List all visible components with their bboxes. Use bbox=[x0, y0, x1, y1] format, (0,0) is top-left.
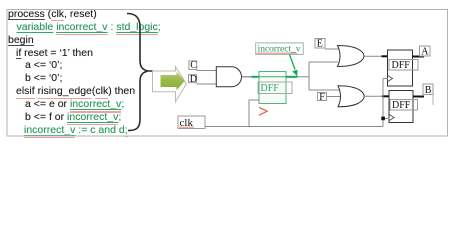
flip-flop DFF1 body bbox=[388, 50, 413, 86]
svg-text:D: D bbox=[190, 74, 197, 85]
code line 7 bbox=[16, 86, 135, 96]
clk vertical to dot bbox=[382, 79, 384, 127]
wire D to AND bbox=[197, 83, 217, 85]
code line 1 bbox=[8, 9, 97, 19]
code line 2 bbox=[17, 22, 161, 32]
green block arrow bbox=[161, 72, 185, 90]
green DFF clk wire bbox=[249, 100, 259, 127]
input label box D bbox=[189, 75, 197, 83]
code line 4 bbox=[16, 48, 93, 58]
green label arrow bbox=[290, 55, 296, 70]
clk bus bbox=[205, 126, 383, 128]
input label box C bbox=[189, 61, 197, 70]
svg-text:DFF: DFF bbox=[392, 100, 411, 111]
junction dot bbox=[381, 117, 385, 121]
fork vertical bbox=[308, 62, 310, 90]
svg-text:B: B bbox=[425, 85, 432, 96]
outer border bbox=[7, 10, 448, 137]
incorrect_v DFF output pin stub (green) bbox=[286, 76, 298, 78]
green DFF label frame bbox=[258, 82, 292, 94]
output label box A bbox=[420, 46, 431, 56]
incorrect_v DFF input pin stub (green) bbox=[252, 76, 260, 78]
input label box F bbox=[318, 93, 327, 101]
svg-text:E: E bbox=[317, 39, 323, 50]
DFF2 output pin stub to B bbox=[413, 96, 424, 98]
code line 8 bbox=[25, 99, 124, 109]
wire to fork bbox=[298, 76, 310, 78]
red clock chevron bbox=[259, 107, 267, 115]
svg-text:A: A bbox=[421, 47, 429, 58]
DFF1 output pin stub to A bbox=[413, 56, 425, 58]
flip-flop DFF2 body bbox=[389, 91, 413, 123]
clk to DFF2 bbox=[385, 118, 390, 120]
B box tail bbox=[432, 95, 434, 106]
clk to DFF1 bbox=[383, 78, 388, 80]
DFF2 label frame bbox=[390, 100, 418, 111]
code line 9 bbox=[25, 112, 121, 122]
svg-text:DFF: DFF bbox=[392, 60, 411, 71]
DFF1 label frame bbox=[389, 60, 418, 71]
DFF1 input pin stub bbox=[382, 55, 388, 57]
code line 5 bbox=[25, 60, 62, 70]
white block arrow bbox=[153, 67, 187, 102]
DFF2 input pin stub bbox=[382, 95, 389, 97]
svg-text:F: F bbox=[319, 92, 325, 103]
wire OR1 to DFF1 bbox=[364, 55, 382, 57]
svg-text:C: C bbox=[190, 60, 197, 71]
svg-text:DFF: DFF bbox=[261, 83, 280, 94]
code line 3 bbox=[8, 35, 34, 45]
DFF1 clock triangle bbox=[388, 76, 393, 82]
wire fork to OR2 bbox=[309, 89, 340, 91]
red underline in label bbox=[257, 52, 298, 54]
net label box incorrect_v bbox=[256, 43, 304, 55]
wire F to OR2 bbox=[327, 96, 342, 98]
wire AND out bbox=[242, 76, 252, 78]
green wire through bbox=[259, 76, 286, 78]
DFF2 clock triangle bbox=[389, 115, 394, 121]
wire fork to OR1 bbox=[309, 61, 338, 63]
code line 10 bbox=[24, 125, 128, 135]
clk box bbox=[178, 116, 205, 129]
output label box B bbox=[423, 84, 433, 95]
wire C to AND bbox=[197, 70, 217, 72]
curly brace bbox=[127, 14, 154, 131]
input label box E bbox=[315, 39, 325, 49]
OR gate upper bbox=[338, 46, 365, 67]
inferred flip-flop body incorrect_v (green) bbox=[259, 72, 286, 104]
wire E to OR1 bbox=[325, 48, 339, 50]
AND gate bbox=[216, 67, 241, 87]
OR gate lower bbox=[338, 86, 364, 107]
wire OR2 to DFF2 bbox=[364, 95, 382, 97]
code line 6 bbox=[25, 73, 62, 83]
